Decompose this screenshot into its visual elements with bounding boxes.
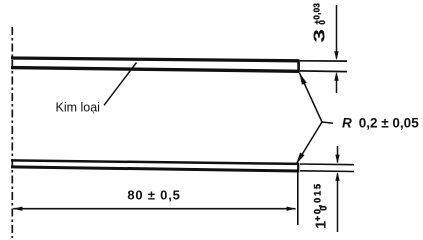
svg-text:0: 0 [318, 206, 328, 211]
svg-text:+0,015: +0,015 [312, 182, 322, 221]
svg-text:Kim loại: Kim loại [56, 101, 100, 115]
svg-text:0: 0 [318, 20, 327, 25]
svg-text:80 ± 0,5: 80 ± 0,5 [127, 188, 180, 203]
svg-text:R0,2 ± 0,05: R0,2 ± 0,05 [342, 116, 419, 131]
svg-text:3: 3 [311, 29, 328, 43]
